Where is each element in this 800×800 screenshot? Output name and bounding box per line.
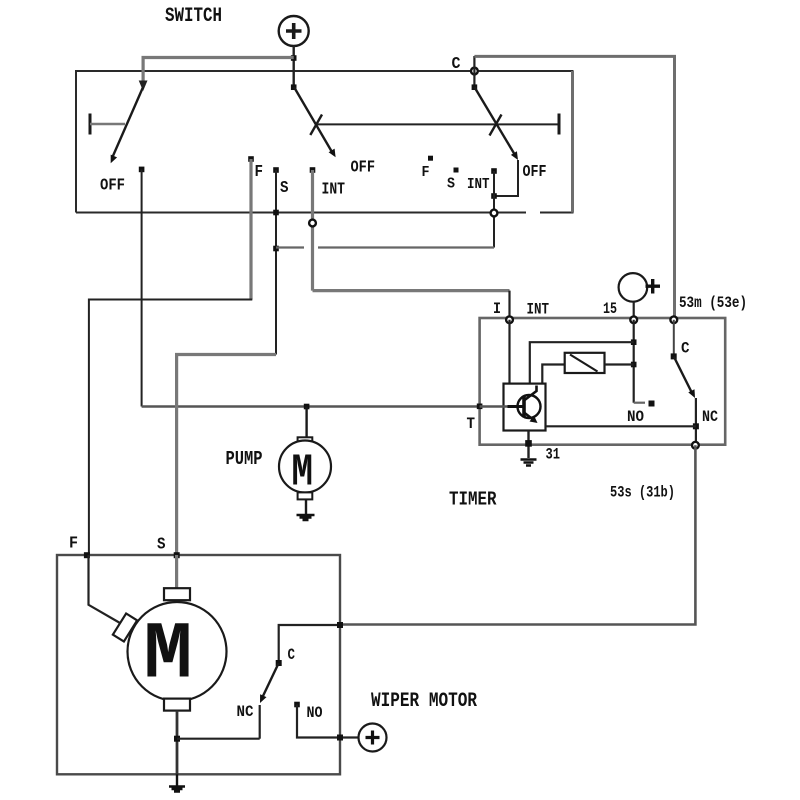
left ON contact lead (gray)	[90, 123, 125, 126]
arrowhead park blade	[260, 694, 267, 703]
node on motor ground wire	[174, 736, 180, 742]
third brush (angled)	[113, 613, 137, 641]
gray feed wire top-right from C to right rail	[474, 56, 674, 318]
svg-text:C: C	[681, 340, 690, 358]
INT contact dot (right bank, top of hook wire)	[491, 168, 497, 174]
F contact dot (left bank)	[248, 156, 254, 162]
indicator lamp circle with +	[619, 273, 648, 302]
svg-text:TIMER: TIMER	[449, 489, 497, 511]
node on box right edge (+ feed)	[337, 735, 343, 741]
collector wire to NC	[546, 425, 696, 427]
branch wire from INT' to S wire	[276, 246, 494, 248]
pump ground	[297, 515, 315, 520]
arrowhead middle blade end	[329, 149, 336, 158]
open terminal 15	[630, 316, 637, 323]
svg-text:I: I	[493, 300, 501, 318]
svg-text:F: F	[255, 163, 264, 182]
svg-text:NC: NC	[702, 408, 718, 426]
svg-text:NC: NC	[237, 703, 254, 721]
wire 53s down and to wiper motor	[340, 445, 695, 624]
INT wire to timer I (gray)	[313, 289, 510, 292]
middle blade pivot node	[291, 84, 297, 90]
WIPER MOTOR box	[57, 555, 340, 774]
middle switch blade	[294, 87, 332, 152]
wire motor ground to NC	[177, 738, 260, 740]
switch box S1	[76, 71, 573, 213]
S contact dot (right bank)	[454, 168, 459, 173]
svg-text:NO: NO	[627, 408, 644, 426]
open terminal on INT wire	[309, 220, 316, 227]
NC junction with transistor collector wire	[693, 423, 699, 429]
relay coil feed wire	[530, 342, 634, 383]
INT contact dot (left bank)	[310, 167, 316, 173]
wire I terminal into timer	[508, 320, 510, 384]
INT wire drop to I terminal	[508, 291, 510, 320]
svg-text:WIPER MOTOR: WIPER MOTOR	[371, 690, 477, 713]
wire bottom brush to box bottom	[176, 711, 179, 775]
NO contact stub (timer)	[634, 402, 645, 404]
node on timer bottom edge	[525, 440, 532, 447]
F wire horizontal	[89, 300, 252, 556]
node at feed junction	[291, 55, 297, 61]
battery + terminal (top)	[279, 16, 309, 46]
motor ground below box	[169, 774, 185, 791]
bottom brush	[164, 699, 190, 711]
open terminal 53s	[692, 442, 699, 449]
plus mark (park supply)	[366, 731, 380, 745]
middle X tick	[310, 115, 322, 136]
S terminal node	[174, 552, 180, 558]
node on hook	[491, 193, 497, 199]
resistor right wire	[605, 363, 634, 365]
open terminal on box bottom	[491, 210, 498, 217]
svg-text:F: F	[69, 535, 78, 554]
timer ground	[521, 460, 537, 466]
NO wire to + supply	[297, 705, 359, 738]
open terminal I	[506, 316, 513, 323]
pump ground wire	[305, 499, 307, 514]
svg-text:NO: NO	[307, 704, 323, 722]
transistor box	[504, 384, 546, 431]
svg-text:SWITCH: SWITCH	[165, 5, 222, 28]
svg-text:INT: INT	[527, 301, 550, 319]
svg-text:53s (31b): 53s (31b)	[610, 483, 675, 501]
NO contact dot (timer)	[649, 401, 655, 407]
pump node on T line	[304, 404, 310, 410]
svg-text:M: M	[292, 447, 314, 498]
NC wire down	[695, 398, 697, 445]
hook wire from right blade OFF end	[494, 160, 518, 196]
OFF wire down from left OFF contact to T line	[141, 169, 143, 406]
junction relay feed	[631, 339, 637, 345]
right X tick	[490, 115, 502, 136]
svg-text:C: C	[452, 55, 461, 74]
wire lamp down to 15 terminal	[633, 302, 635, 320]
park blade	[263, 663, 279, 696]
plus mark beside lamp	[646, 279, 661, 294]
wire S terminal to top brush	[175, 555, 178, 588]
wire (switch box right edge shading)	[571, 71, 574, 213]
svg-text:INT: INT	[322, 181, 346, 200]
S wire vertical	[275, 170, 277, 355]
wire node to pump	[305, 407, 307, 438]
pump top brush cap	[298, 437, 313, 444]
arrowhead right blade end	[511, 151, 518, 160]
relay blade to NC	[674, 357, 693, 395]
F contact dot (right bank)	[428, 156, 433, 161]
open terminal C on box top	[471, 68, 478, 75]
contact line between X marks to T-bar	[317, 123, 559, 125]
wiper motor M2 circle	[128, 602, 227, 701]
F terminal node	[84, 552, 90, 558]
svg-text:C: C	[288, 646, 296, 664]
svg-text:S: S	[447, 175, 455, 192]
INT wire (gray drop)	[311, 170, 314, 291]
svg-text:OFF: OFF	[523, 163, 547, 182]
svg-text:M: M	[144, 610, 193, 701]
right switch blade	[474, 87, 515, 155]
arrowhead relay blade	[688, 389, 695, 398]
node on box right edge (park feed)	[337, 622, 343, 628]
wire from + terminal down to middle blade pivot	[293, 46, 295, 87]
NO contact dot (park)	[294, 702, 300, 708]
wire feed top-left (gray)	[143, 58, 294, 83]
park pivot node	[276, 660, 282, 666]
right blade pivot node	[472, 84, 478, 90]
F wire (gray drop)	[249, 159, 252, 300]
svg-text:53m (53e): 53m (53e)	[679, 294, 747, 312]
left switch blade	[113, 87, 144, 157]
T line wire to timer	[142, 405, 480, 407]
wire C down to right blade pivot	[473, 56, 475, 87]
svg-text:S: S	[280, 179, 289, 198]
svg-text:INT: INT	[467, 176, 490, 193]
top brush	[164, 588, 190, 600]
wire INT' down through box edge	[493, 171, 495, 248]
svg-text:PUMP: PUMP	[226, 448, 263, 470]
resistor feed wire	[542, 365, 564, 384]
NC wire down to motor ground line	[259, 705, 261, 739]
node S at box bottom	[273, 210, 279, 216]
left ON contact T-bar	[89, 114, 92, 135]
S contact dot (left bank)	[273, 167, 279, 173]
svg-text:31: 31	[546, 446, 561, 464]
arrowhead onto left blade pivot	[139, 81, 148, 92]
emitter wire down	[527, 431, 529, 459]
transistor Q1	[508, 386, 541, 424]
open terminal 53m	[670, 316, 677, 323]
pump motor M1 circle	[279, 441, 331, 493]
wire 15 rail down	[633, 320, 635, 403]
resistor / coil R1	[565, 353, 605, 373]
TIMER box	[480, 318, 726, 445]
junction resistor feed	[631, 362, 637, 368]
node S at INT' branch	[273, 246, 279, 252]
pump bottom brush cap	[298, 492, 313, 499]
svg-text:F: F	[422, 164, 430, 181]
relay common pivot node	[671, 353, 677, 359]
svg-text:S: S	[157, 536, 166, 555]
T input node on timer edge	[477, 404, 483, 410]
OFF contact node	[139, 167, 145, 173]
park switch feed wire	[279, 625, 340, 663]
+ supply circle (park)	[359, 724, 387, 752]
base wire inside timer	[480, 405, 508, 407]
S wire to wiper motor (gray)	[177, 355, 276, 556]
wire 53m down to relay common	[673, 320, 675, 357]
arrowhead left blade end	[111, 155, 117, 164]
svg-text:OFF: OFF	[351, 159, 376, 178]
wire F terminal to third brush	[89, 555, 121, 623]
right T-bar contact	[558, 114, 561, 135]
svg-text:15: 15	[603, 300, 617, 318]
svg-text:OFF: OFF	[100, 176, 125, 195]
svg-text:T: T	[467, 415, 476, 433]
